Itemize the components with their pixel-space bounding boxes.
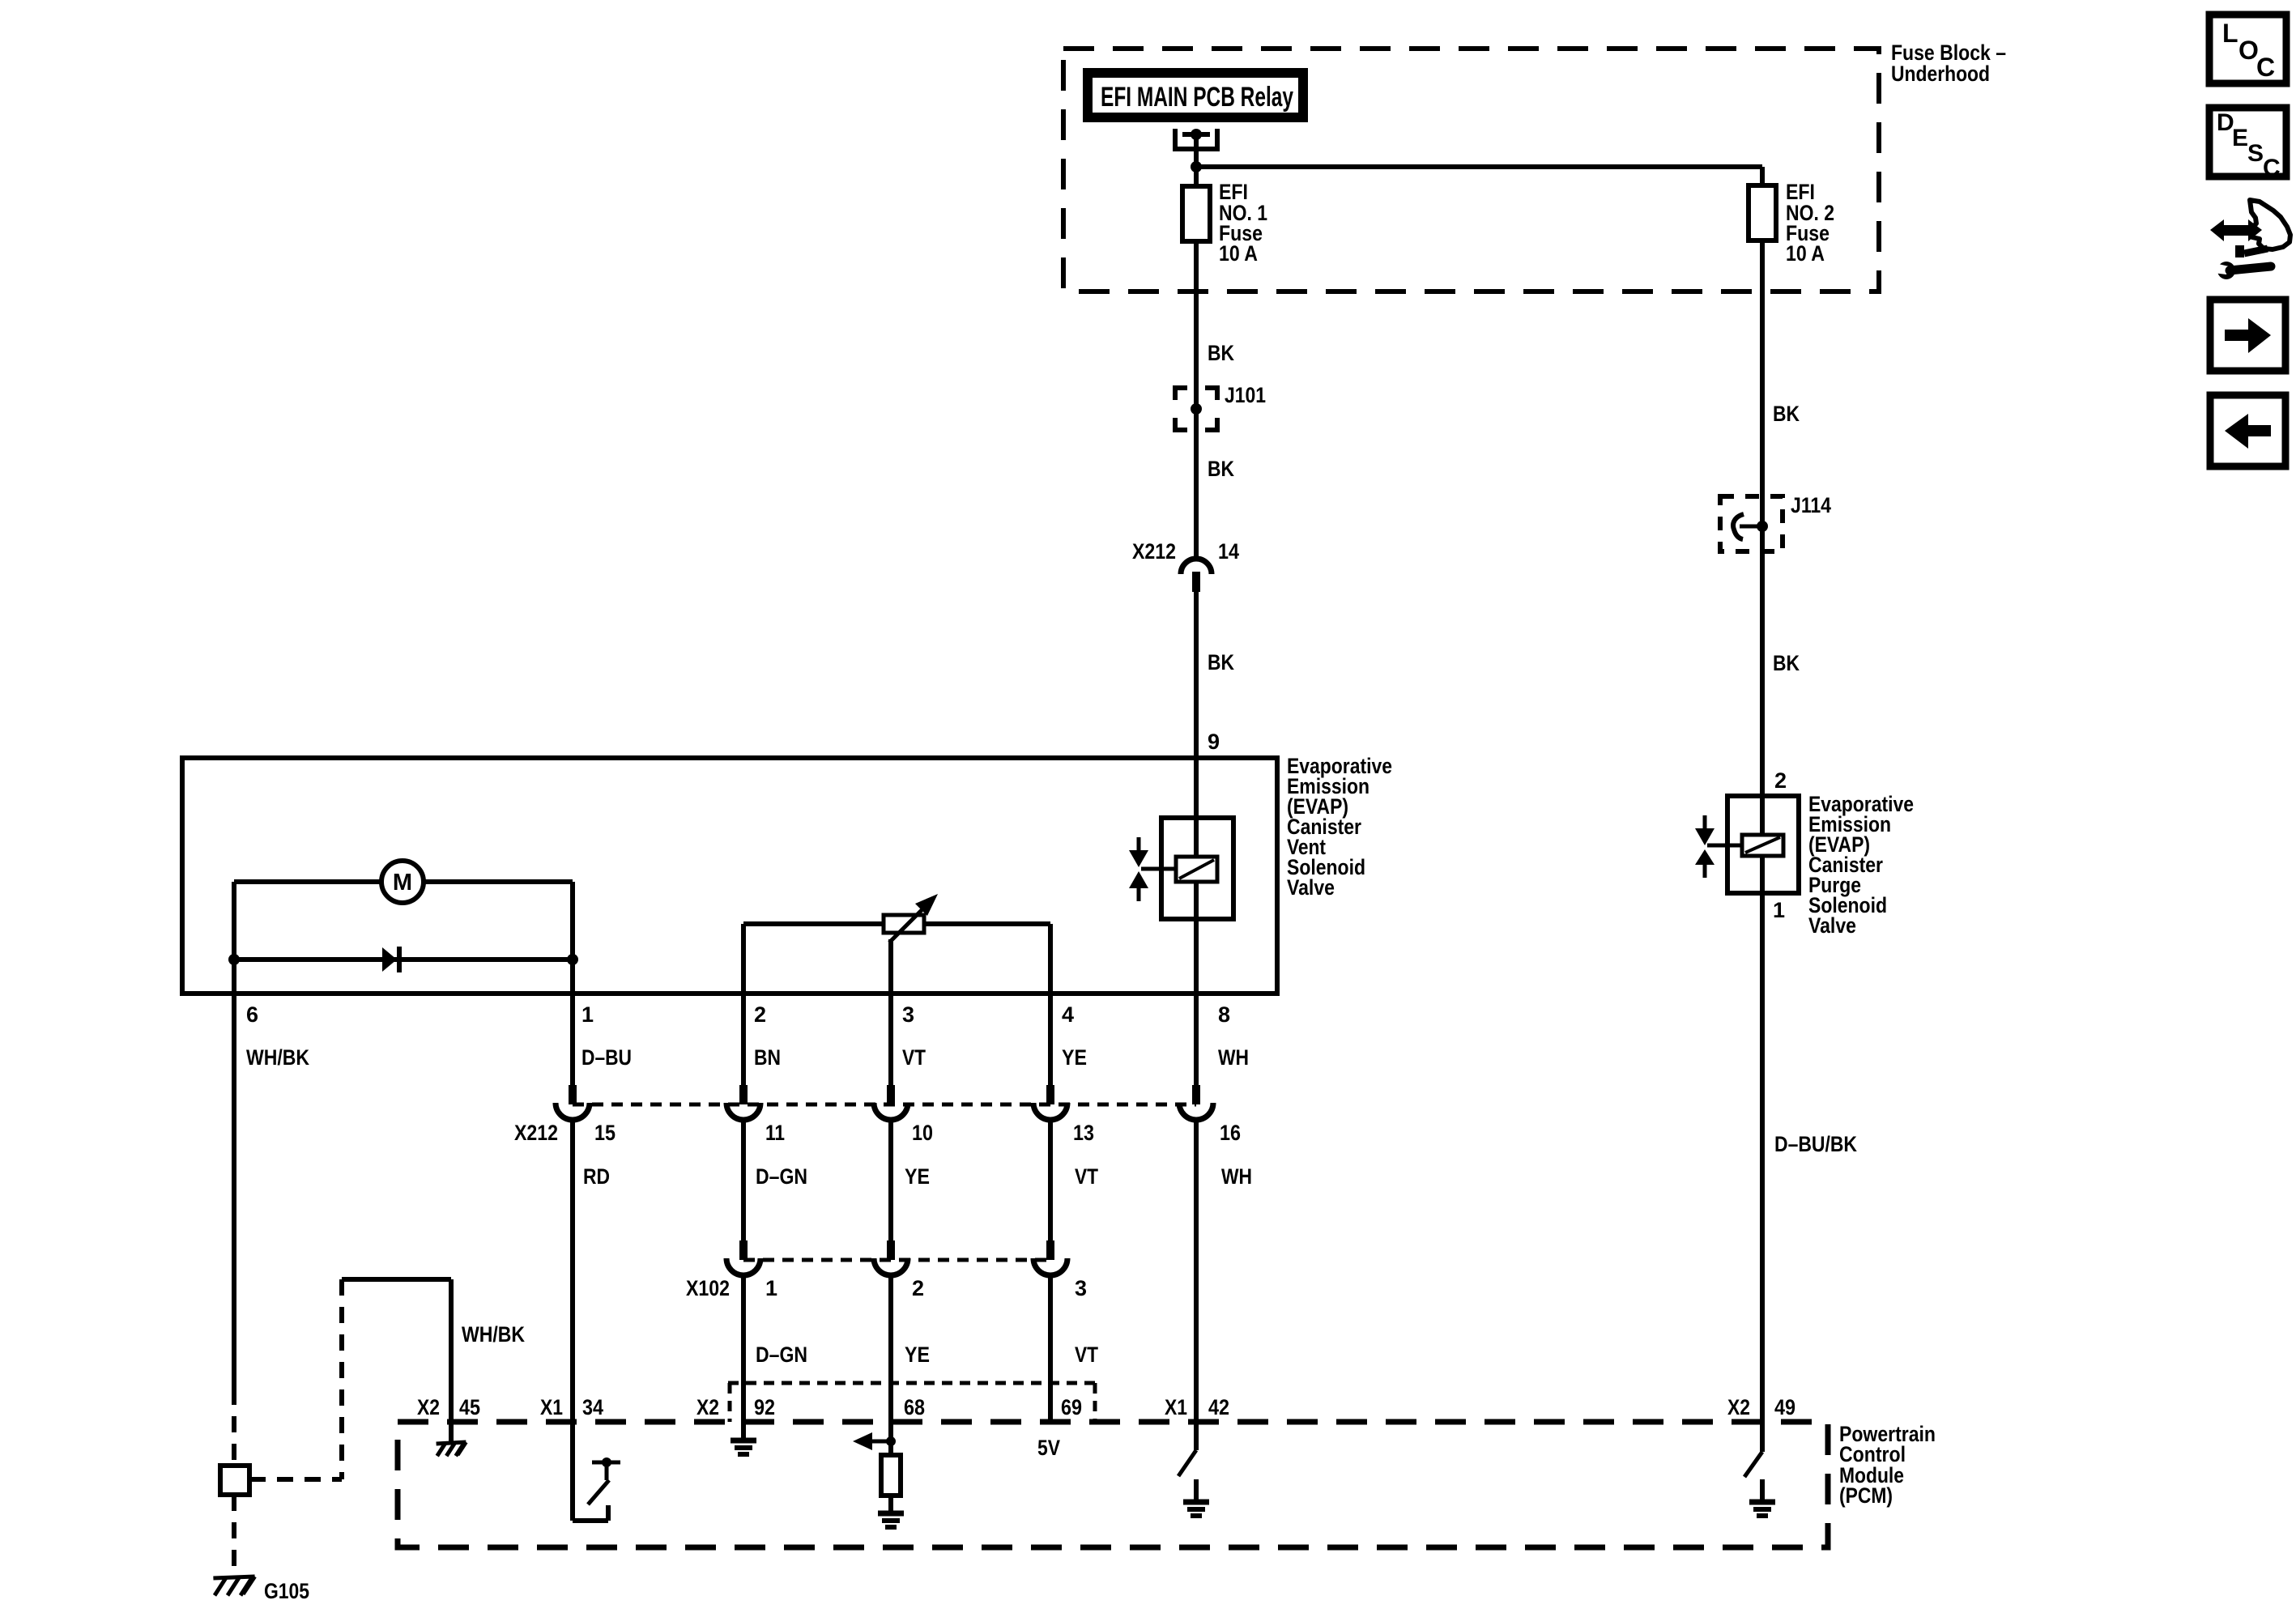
svg-text:X2: X2: [696, 1395, 719, 1419]
connector X212 terminal: [739, 1085, 748, 1104]
wire: X212-14 down to pin 9: [1194, 592, 1199, 758]
wire: [888, 1117, 893, 1240]
svg-text:X1: X1: [1165, 1395, 1187, 1419]
svg-text:X102: X102: [686, 1276, 730, 1300]
svg-text:L: L: [2222, 19, 2238, 48]
wire fuse2 down to purge solenoid: [1760, 240, 1765, 835]
svg-text:EFI MAIN PCB Relay: EFI MAIN PCB Relay: [1101, 82, 1293, 113]
PCM dashed box: [398, 1422, 1828, 1547]
svg-text:E: E: [2232, 125, 2248, 151]
svg-text:VT: VT: [902, 1045, 926, 1070]
icon: DESC box: [2209, 108, 2286, 177]
svg-text:2: 2: [912, 1276, 924, 1300]
svg-text:X1: X1: [540, 1395, 563, 1419]
fuse F2: EFI NO. 2 Fuse 10 A: [1749, 185, 1776, 240]
svg-text:14: 14: [1218, 539, 1239, 564]
ground: [888, 1496, 893, 1511]
svg-text:BK: BK: [1773, 651, 1800, 675]
connector X212 terminal: [887, 1085, 895, 1104]
wire: fuse1 down to X212 pin 14: [1194, 241, 1199, 559]
svg-text:S: S: [2247, 140, 2264, 167]
svg-text:D–BU/BK: D–BU/BK: [1774, 1132, 1857, 1156]
svg-text:WH/BK: WH/BK: [462, 1322, 525, 1347]
fuel level sensor (variable resistor): [743, 921, 884, 926]
fuel pump motor M: [234, 879, 381, 884]
connector row X102: [743, 1258, 1050, 1262]
wire to PCM pin 45 (WH/BK): [342, 1277, 451, 1282]
connector X212 terminal: [1046, 1085, 1054, 1104]
svg-text:BK: BK: [1208, 650, 1234, 674]
svg-text:VT: VT: [1075, 1343, 1098, 1367]
wire: [1194, 994, 1199, 1085]
wire pin6 WH/BK: [232, 994, 236, 1389]
svg-text:49: 49: [1774, 1395, 1795, 1419]
wire: [1048, 1117, 1053, 1240]
svg-text:M: M: [393, 870, 412, 896]
svg-text:VT: VT: [1075, 1164, 1098, 1189]
fuel pump module box: [182, 758, 1277, 994]
fuse block - underhood dashed box: [1063, 49, 1879, 291]
svg-text:9: 9: [1208, 730, 1220, 754]
svg-text:42: 42: [1208, 1395, 1229, 1419]
svg-text:D–GN: D–GN: [756, 1343, 807, 1367]
wire: [741, 994, 746, 1085]
wire: [888, 1273, 893, 1422]
splice J101: [1175, 388, 1187, 400]
splice J114: [1720, 496, 1783, 551]
svg-text:2: 2: [1774, 768, 1787, 793]
PCM X2 connector dashed outline: [728, 1381, 1095, 1385]
connector X212 terminal: [569, 1085, 577, 1104]
svg-text:X2: X2: [1727, 1395, 1750, 1419]
svg-text:34: 34: [582, 1395, 603, 1419]
ground G105: [213, 1577, 254, 1578]
wires X212 to X102/PCM: [570, 1117, 575, 1422]
svg-text:5V: 5V: [1037, 1436, 1060, 1460]
purge valve symbol: [1703, 815, 1707, 829]
wire: [1048, 1273, 1053, 1422]
wire: [888, 994, 893, 1085]
svg-text:RD: RD: [583, 1164, 610, 1189]
wire: [1048, 994, 1053, 1085]
fuse F1: EFI NO. 1 Fuse 10 A: [1182, 186, 1210, 241]
svg-text:X212: X212: [514, 1121, 558, 1145]
svg-text:45: 45: [459, 1395, 480, 1419]
svg-text:3: 3: [902, 1002, 914, 1027]
svg-text:10 A: 10 A: [1219, 241, 1258, 266]
svg-text:WH: WH: [1218, 1045, 1249, 1070]
svg-text:92: 92: [754, 1395, 775, 1419]
svg-text:16: 16: [1220, 1121, 1241, 1145]
svg-text:YE: YE: [1062, 1045, 1087, 1070]
switch to ground at pin 49: [1760, 1422, 1765, 1452]
svg-text:3: 3: [1075, 1276, 1087, 1300]
EVAP canister vent solenoid valve: [1161, 818, 1233, 919]
svg-text:1: 1: [581, 1002, 594, 1027]
svg-text:4: 4: [1062, 1002, 1074, 1027]
icon: previous page arrow: [2210, 395, 2285, 466]
svg-text:Underhood: Underhood: [1891, 62, 1990, 86]
connector X102 terminal: [739, 1240, 748, 1260]
chassis ground at pin 45: [437, 1442, 466, 1444]
svg-text:6: 6: [246, 1002, 258, 1027]
svg-text:WH: WH: [1221, 1164, 1252, 1189]
svg-text:69: 69: [1061, 1395, 1082, 1419]
svg-text:BK: BK: [1208, 457, 1234, 481]
svg-text:BK: BK: [1773, 402, 1800, 426]
svg-text:BN: BN: [754, 1045, 781, 1070]
connector row X212: [573, 1103, 1196, 1107]
svg-text:15: 15: [594, 1121, 616, 1145]
svg-text:8: 8: [1218, 1002, 1230, 1027]
svg-text:G105: G105: [264, 1579, 309, 1603]
svg-text:BK: BK: [1208, 341, 1234, 365]
svg-text:C: C: [2256, 53, 2275, 82]
signal output arrow at pin 68: [888, 1422, 893, 1441]
svg-text:D–GN: D–GN: [756, 1164, 807, 1189]
relay box: EFI MAIN PCB Relay: [1088, 73, 1303, 117]
connector X102 terminal: [1046, 1240, 1054, 1260]
vent valve symbol: [1137, 837, 1141, 851]
dashed link: [339, 1279, 344, 1479]
svg-text:1: 1: [765, 1276, 777, 1300]
wire: relay to fuse 1: [1194, 134, 1199, 186]
inline connector (bottom left): [220, 1466, 249, 1495]
svg-text:Valve: Valve: [1808, 913, 1856, 938]
junction node: [1191, 161, 1202, 172]
wire: [570, 994, 575, 1085]
svg-text:C: C: [2263, 155, 2281, 181]
svg-text:YE: YE: [905, 1164, 930, 1189]
svg-text:J101: J101: [1225, 383, 1266, 407]
wire: [570, 882, 575, 994]
wire: [741, 1117, 746, 1240]
icon: LOC box: [2209, 15, 2286, 83]
ground at pin 92: [741, 1422, 746, 1438]
svg-text:J114: J114: [1791, 493, 1831, 517]
svg-text:13: 13: [1073, 1121, 1094, 1145]
icon: diagnostic tools (arrow / glove / wrench): [2249, 200, 2290, 249]
resistor inside PCM: [888, 1441, 893, 1455]
icon: next page arrow: [2210, 300, 2285, 371]
wire: [232, 882, 236, 994]
svg-text:D–BU: D–BU: [581, 1045, 632, 1070]
wire: branch to EFI NO.2 fuse: [1196, 164, 1762, 169]
connector X212 terminal: [1192, 1085, 1200, 1104]
EVAP canister purge solenoid valve: [1727, 796, 1799, 893]
svg-text:68: 68: [904, 1395, 925, 1419]
svg-text:10 A: 10 A: [1786, 241, 1825, 266]
wire: [741, 1273, 746, 1422]
connector X102 terminal: [887, 1240, 895, 1260]
svg-text:WH/BK: WH/BK: [246, 1045, 309, 1070]
switch to ground at pin 42: [1194, 1422, 1199, 1450]
svg-text:10: 10: [912, 1121, 933, 1145]
svg-text:2: 2: [754, 1002, 766, 1027]
svg-text:11: 11: [765, 1121, 785, 1145]
svg-text:1: 1: [1773, 898, 1785, 922]
relay contact symbol: [1175, 129, 1217, 149]
svg-text:X2: X2: [417, 1395, 440, 1419]
svg-text:X212: X212: [1132, 539, 1176, 564]
svg-text:Valve: Valve: [1287, 875, 1335, 900]
svg-text:(PCM): (PCM): [1839, 1483, 1893, 1508]
svg-text:YE: YE: [905, 1343, 930, 1367]
switch inside PCM at pin 34: [570, 1422, 575, 1521]
diode (pump noise suppression): [234, 957, 573, 962]
